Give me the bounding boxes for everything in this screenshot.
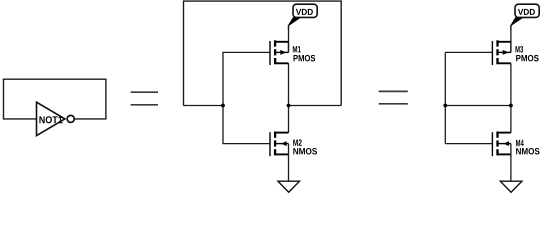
wire: M4 source to ground [510, 154, 512, 181]
wire: VDD to M3 source [510, 25, 512, 52]
wire: M2 source to ground [288, 154, 290, 181]
wire: loop right edge [340, 1, 342, 105]
label NMOS [516, 148, 539, 155]
wire: gate bus (input net) [444, 52, 446, 143]
label NOT1 [39, 116, 62, 123]
equals sign #2 [379, 91, 408, 103]
label M2 [293, 139, 301, 145]
wire: left edge to gate bus [184, 105, 224, 107]
ground (right) [500, 181, 522, 192]
wire: M4 gate lead [445, 143, 492, 145]
wire: gate bus (input net) [222, 52, 224, 143]
transistor M1 (PMOS) [270, 40, 289, 65]
wire: VDD to M1 source [288, 25, 290, 52]
wire: loop left edge [3, 79, 5, 120]
wire: M1 gate lead [222, 51, 270, 53]
equals sign #1 [131, 92, 158, 105]
inverter NOT1 (triangle body) [37, 102, 65, 135]
wire: output node to loop right edge [289, 105, 342, 107]
wire: loop left edge [183, 1, 185, 105]
label M3 [515, 46, 523, 53]
transistor M3 (PMOS) [492, 40, 511, 65]
wire: loop right edge [105, 79, 107, 120]
junction: output node dot [287, 104, 291, 108]
wire: output net (M3 drain to M4 drain) [510, 63, 512, 132]
wire: NOT1 input segment [3, 118, 37, 120]
wire: loop top edge [3, 78, 107, 80]
inverter NOT1 output bubble [67, 115, 74, 122]
wire: loop top edge [183, 0, 342, 2]
label M1 [293, 46, 301, 52]
label NMOS [293, 148, 317, 155]
wire: M2 gate lead [222, 143, 270, 145]
wire: M3 gate lead [445, 51, 492, 53]
power VDD flag (right) [511, 4, 539, 30]
wire: NOT1 output segment [75, 118, 107, 120]
wire: feedback input to output [445, 105, 511, 107]
label M4 [516, 140, 524, 146]
transistor M2 (NMOS) [270, 132, 289, 157]
junction: input node dot [221, 104, 225, 108]
label PMOS [516, 55, 539, 62]
transistor M4 (NMOS) [492, 132, 511, 157]
power VDD flag (middle) [289, 4, 318, 30]
ground (middle) [278, 181, 300, 192]
junction: output node dot [509, 104, 513, 108]
junction: input node dot [443, 104, 447, 108]
wire: output net (M1 drain to M2 drain) [288, 63, 290, 132]
label PMOS [294, 55, 316, 62]
